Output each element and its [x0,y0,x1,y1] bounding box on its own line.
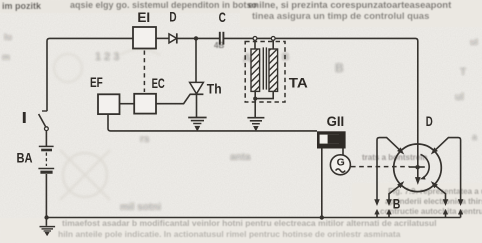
label D (diode) [169,10,176,25]
diode D [169,33,177,43]
wire EF to pickup GII rail [108,114,317,131]
thyristor Th [190,82,204,94]
svg-text:EC: EC [152,76,165,91]
wire top rail capacitor to distributor [224,38,418,144]
svg-text:rs: rs [140,134,150,145]
label BA [17,151,33,166]
svg-text:D: D [169,10,176,25]
svg-text:T: T [460,67,466,78]
node battery-ground junction [44,215,48,219]
dashed drive link G to distributor [351,166,410,168]
switch I [39,111,49,131]
svg-text:timaefost asadar b modificanta: timaefost asadar b modificantal veinlor … [62,218,437,228]
distributor output 2 (bottom-left electrode to spark gap) [387,181,405,205]
svg-text:lu: lu [4,32,12,42]
pickup sensor GII [317,131,346,155]
svg-text:ul: ul [470,37,478,47]
svg-text:B: B [335,61,344,75]
wire battery to ground node [45,174,47,218]
svg-text:tinea asigura un timp de contr: tinea asigura un timp de controlul quas [252,11,429,22]
wire thyristor cathode to ground [196,94,198,117]
spark plug electrode 2 [387,209,392,217]
transformer TA dashed boundary [245,42,285,103]
svg-text:ul: ul [455,92,464,103]
wire bottom rail (chassis return) [47,217,461,219]
svg-text:TA: TA [289,76,308,91]
wire EF to EC [120,103,135,105]
svg-text:D: D [426,114,433,129]
label D (distributor) [426,114,433,129]
svg-text:Fig. 7.9. reprezentatea a unui: Fig. 7.9. reprezentatea a unui [388,187,482,196]
svg-text:mil sotni: mil sotni [120,202,161,213]
wire TA winding bottom leads [255,91,273,117]
svg-text:m: m [2,52,10,62]
block EF (supply/shaping unit) [98,94,120,114]
node TA bottom junction [253,97,257,101]
label EI [137,10,150,25]
distributor output 1 (top-left electrode to spark gap) [375,138,405,206]
TA primary winding [251,49,260,91]
dashed control link EI to EC [143,51,145,93]
svg-text:Th: Th [207,82,222,97]
svg-text:aqsie elgy go. sistemul depend: aqsie elgy go. sistemul dependiton in bo… [70,0,258,10]
wire battery circuit: switch up to top-left corner and right to EI [47,38,133,111]
TA terminal circles on top rail [253,37,275,41]
spark plug electrode 3 [443,209,448,217]
distributor rotation arrow [420,155,429,180]
ground TA [247,118,264,131]
label GII [327,114,345,129]
wire EI to diode D [156,37,169,39]
spark plug electrode 4 [458,209,463,217]
label Th [207,82,222,97]
label B [393,196,401,211]
label EF [90,75,103,90]
spark plug electrode 1 (up arrow from rail) [375,209,380,217]
wire junction to thyristor anode [195,38,197,82]
label C [219,10,226,25]
svg-text:G: G [337,157,345,169]
TA core [263,47,266,89]
svg-text:EF: EF [90,75,103,90]
node junction at thyristor branch [194,36,198,40]
svg-text:EI: EI [137,10,150,25]
svg-text:GII: GII [327,114,345,129]
distributor D housing [394,144,442,192]
label EC [152,76,165,91]
wire GII to bottom rail [321,149,323,218]
svg-text:B: B [393,196,401,211]
block EC (control unit) [134,94,156,114]
svg-text:im pozitk: im pozitk [2,1,42,11]
svg-text:C: C [219,10,226,25]
wire diode to capacitor [178,37,220,39]
svg-text:anta: anta [230,152,251,163]
wire TA primary top lead [254,40,256,49]
svg-text:I: I [22,110,28,127]
capacitor C [220,32,224,45]
generator G [330,155,350,175]
svg-text:enilne, si prezinta corespunza: enilne, si prezinta corespunzatoarteasea… [248,0,452,11]
svg-text:BA: BA [17,151,33,166]
ground battery [40,218,56,236]
battery BA [38,146,54,172]
svg-text:hiln anteile pole indicatie. I: hiln anteile pole indicatie. In actionat… [58,229,401,239]
label I [22,110,28,127]
distributor output 4 (top-right electrode to spark gap) [431,138,463,206]
label TA [289,76,308,91]
svg-text:1 2 3: 1 2 3 [95,51,119,63]
distributor rotor shaft and center [409,144,425,184]
node GII-rail junction [320,215,324,219]
TA secondary winding [269,49,278,91]
distributor output 3 (bottom-right electrode to spark gap) [431,181,448,205]
wire switch to battery [45,131,47,147]
wire EC to Th gate [156,94,190,103]
wire TA secondary top lead [272,40,274,49]
op-amp block EI (impulse unit) [133,27,156,49]
ground thyristor [188,118,206,132]
